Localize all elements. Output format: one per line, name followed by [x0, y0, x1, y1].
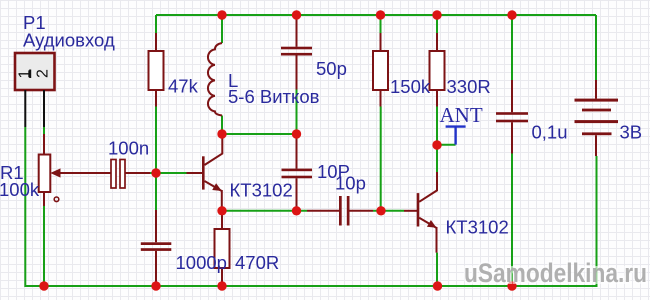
svg-text:1000p: 1000p [176, 252, 227, 273]
svg-text:uSamodelkina.ru: uSamodelkina.ru [464, 258, 647, 288]
svg-text:КТ3102: КТ3102 [230, 180, 293, 201]
svg-text:47k: 47k [168, 75, 199, 96]
svg-text:2: 2 [35, 69, 52, 78]
svg-text:1: 1 [17, 69, 34, 78]
svg-text:50p: 50p [316, 58, 347, 79]
svg-text:КТ3102: КТ3102 [446, 217, 509, 238]
svg-text:100k: 100k [0, 179, 40, 200]
svg-text:3В: 3В [620, 122, 643, 143]
svg-text:Аудиовход: Аудиовход [23, 30, 115, 51]
svg-text:10p: 10p [335, 173, 366, 194]
svg-text:5-6 Витков: 5-6 Витков [228, 86, 320, 107]
svg-text:470R: 470R [235, 252, 279, 273]
svg-text:100n: 100n [108, 138, 149, 159]
svg-text:0,1u: 0,1u [532, 122, 568, 143]
svg-text:150k: 150k [390, 76, 431, 97]
svg-text:330R: 330R [447, 76, 491, 97]
svg-text:ANT: ANT [440, 103, 483, 127]
